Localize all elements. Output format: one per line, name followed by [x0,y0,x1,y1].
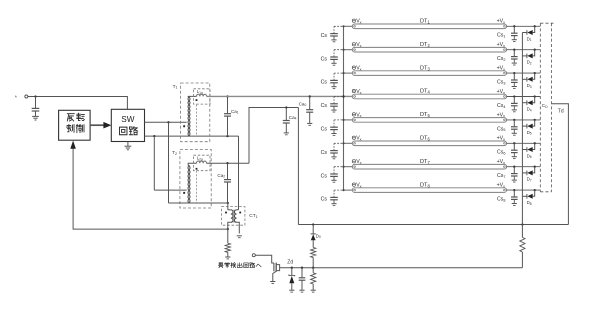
wire protection node [282,267,523,269]
right row line 7 [507,166,541,168]
svg-text:D8: D8 [527,200,532,206]
T1 winding top to L1a [188,95,196,98]
inductor L1a [194,89,211,104]
wire terminal to MOSFET gate [255,255,274,263]
svg-text:Cs: Cs [321,56,328,62]
terminal to abnormality detection [252,254,255,257]
stray capacitor Cs row 8 left [334,189,344,191]
label -Vx [352,19,355,22]
panel Td [552,104,569,225]
CT1 secondary [237,209,239,211]
capacitor Ca0 [309,95,311,97]
T1 phase dot [183,125,185,127]
svg-text:DT7: DT7 [420,159,430,165]
diode D4 [534,95,536,97]
ground [32,115,39,117]
right row line 4 [507,96,541,98]
svg-text:DT3: DT3 [420,65,430,71]
capacitor Ca4 on return bus [285,106,287,108]
zener diode Zd [291,267,293,269]
svg-text:D2: D2 [527,60,532,66]
lamp row 2 [344,49,353,51]
wire T2 tap line [154,189,186,191]
lamp row 8 [344,189,353,191]
stray capacitor Cs8 right [513,189,515,191]
lamp left bus [343,26,345,190]
stray capacitor Cs row 2 left [334,49,344,51]
wire feedback to control [73,142,228,229]
lamp DT2 [352,47,506,52]
svg-text:Td: Td [558,109,564,115]
right row line 6 [507,142,541,144]
svg-text:Cs: Cs [321,127,328,133]
svg-text:D0: D0 [316,233,321,239]
lamp DT1 [352,24,506,29]
node CT1 bottom [227,228,229,230]
label -Vx [352,183,355,186]
label -Vx [352,66,355,69]
resistor from diode bus [521,223,523,225]
stray capacitor Cs2 right [513,49,515,51]
T2 phase dot [183,192,185,194]
svg-text:Cs: Cs [321,80,328,86]
svg-text:D4: D4 [527,107,532,113]
right row line 2 [507,49,541,51]
stray capacitor Cs1 right [513,25,515,27]
lamp DT7 [352,164,506,169]
SW ground [127,142,129,147]
lamp DT5 [352,118,506,123]
T2 bottom wire [169,202,228,204]
input terminal [15,96,18,98]
stray capacitor Cs7 right [513,166,515,168]
block 反転制御 (inversion control) [59,110,91,140]
arrow control to SW [90,124,104,126]
lamp DT6 [352,141,506,146]
diode D5 [534,119,536,121]
svg-text:DT8: DT8 [420,182,430,188]
right row line 3 [507,72,541,74]
diode D7 [534,166,536,168]
lamp DT3 [352,71,506,76]
svg-text:Ca4: Ca4 [289,115,297,121]
diode D2 [534,49,536,51]
svg-text:DT4: DT4 [420,89,430,95]
bottom return line [298,224,568,226]
stray capacitor Cs4 right [513,95,515,97]
wire SW output B (to T1 bottom and T2 tap) [145,135,239,137]
label -Vx [352,89,355,92]
svg-text:DT6: DT6 [420,136,430,142]
filter capacitor [301,267,303,269]
svg-text:CD: CD [542,103,548,109]
right row line 1 [507,25,541,27]
svg-text:Cs: Cs [321,103,328,109]
capacitor Ca2 [227,163,229,179]
wire T1 bottom to CT1 secondary [238,136,240,210]
right row line 5 [507,119,541,121]
current transformer CT1 [222,207,245,226]
label -Vx [352,113,355,116]
svg-text:Cs: Cs [321,150,328,156]
svg-text:Cs: Cs [321,197,328,203]
svg-text:D1: D1 [527,36,532,42]
svg-text:DT2: DT2 [420,42,430,48]
node input cap tap [34,95,36,97]
sense resistor R2 [312,267,314,269]
label -Vx [352,160,355,163]
svg-text:D7: D7 [527,177,532,183]
transformer T1 [181,83,210,142]
svg-text:D5: D5 [527,130,532,136]
block SW回路 (switch circuit) [111,109,144,141]
stray capacitor Cs6 right [513,142,515,144]
diode D8 [534,189,536,191]
svg-text:DT1: DT1 [420,19,430,25]
CT1 primary [227,203,229,210]
label -Vx [352,136,355,139]
arrow into control block [70,141,76,149]
return bus right side [297,108,299,225]
svg-text:D3: D3 [527,83,532,89]
MOSFET source to ground [273,271,276,281]
CT1 secondary ground [237,235,242,237]
svg-text:Ca1: Ca1 [231,109,239,115]
lamp row 7 [344,166,353,168]
stray capacitor Cs row 4 left [334,96,344,98]
CT1 core [232,210,234,223]
distributed capacitance CD dashed box [539,23,541,192]
svg-text:Ca2: Ca2 [217,173,225,179]
resistor under D0 [311,247,316,257]
ground [225,256,230,258]
stray capacitor Cs3 right [513,72,515,74]
sense resistor below CT1 [227,229,229,243]
lamp row 4 [342,95,344,97]
T2 core [196,171,198,203]
stray capacitor Cs row 1 left [334,25,344,27]
lamp row 5 [344,119,353,121]
label 異常検出回路へ [218,263,223,268]
svg-text:D6: D6 [527,153,532,159]
stray capacitor Cs5 right [513,119,515,121]
HV feed node on bus [342,95,344,97]
wire input to SW [28,97,128,110]
diode D1 [534,25,536,27]
diode D0 [312,223,314,225]
wire SW output A (to T1 tap and T2 bottom) [145,121,187,123]
transformer T2 [180,150,211,209]
T1 core [196,105,198,137]
diode D6 [534,142,536,144]
stray capacitor Cs row 5 left [334,119,344,121]
lamp DT8 [352,188,506,193]
right row line 8 [507,189,541,191]
stray capacitor Cs row 3 left [334,72,344,74]
capacitor Ca1 [227,96,229,113]
CT1 phase dots [225,212,227,214]
ground [299,289,304,291]
svg-text:SW: SW [121,115,134,124]
node HV/Ca1 [226,95,228,97]
svg-text:Zd: Zd [287,260,293,266]
ground [311,289,316,291]
lamp row 6 [344,142,353,144]
svg-text:L2a: L2a [197,155,203,161]
stray capacitor Cs row 7 left [334,166,344,168]
svg-text:DT5: DT5 [420,112,430,118]
diode cathode bus [521,33,523,225]
wire L2a output to return bus [207,162,250,164]
diode D3 [534,72,536,74]
ground [289,289,294,291]
HV wire from L1a to lamps [207,95,353,97]
svg-text:Cs: Cs [321,33,328,39]
MOSFET Q1 [273,263,275,271]
capacitor Cin [35,97,37,109]
svg-text:Cs: Cs [321,173,328,179]
lamp DT4 [352,94,506,99]
label -Vx [352,43,355,46]
lamp row 1 [344,25,353,27]
lamp row 3 [344,72,353,74]
stray capacitor Cs row 6 left [334,142,344,144]
svg-text:Ca0: Ca0 [299,101,307,107]
inductor L2a [194,155,211,171]
T2 winding top to L2a [188,163,196,166]
